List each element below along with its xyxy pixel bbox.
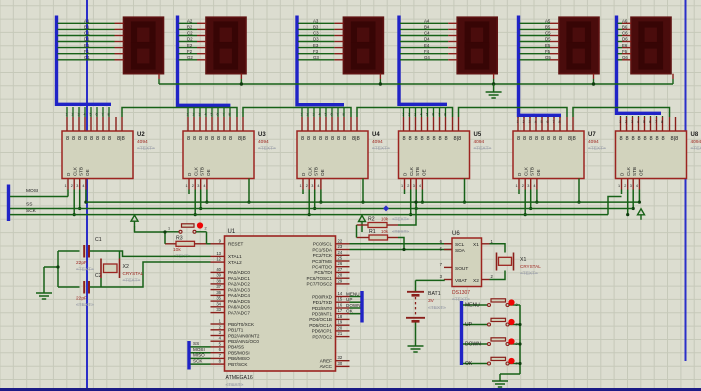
wire U4 vcc pin to rail: [362, 179, 364, 203]
svg-text:STB: STB: [530, 167, 535, 176]
pin U5 bottom pin: [404, 179, 406, 190]
svg-text:D4: D4: [424, 37, 430, 42]
svg-text:22pF: 22pF: [76, 260, 87, 266]
svg-text:6: 6: [432, 113, 434, 117]
svg-text:8: 8: [223, 136, 226, 142]
svg-text:5: 5: [325, 113, 327, 117]
svg-text:G6: G6: [622, 55, 628, 60]
svg-text:4: 4: [419, 184, 421, 188]
svg-text:6: 6: [331, 113, 333, 117]
junction: [247, 201, 250, 204]
svg-text:8: 8: [559, 136, 562, 142]
svg-text:4: 4: [420, 113, 422, 117]
svg-text:8: 8: [90, 136, 93, 142]
wire U4 stb pin to SS rail: [314, 190, 316, 209]
wire U2 clk pin to SCK rail: [73, 190, 75, 215]
svg-text:U4: U4: [372, 132, 380, 138]
pin wire U7 top pin 1: [517, 117, 519, 118]
junction: [518, 323, 521, 326]
svg-text:E6: E6: [622, 43, 628, 48]
wire segment E5 from bus to display: [520, 47, 551, 49]
svg-text:2: 2: [307, 113, 309, 117]
svg-text:8: 8: [211, 136, 214, 142]
pin wire U2 top pin 3: [78, 107, 80, 117]
pin 32 AREF of U1: [336, 360, 350, 362]
wire U5 data pin stub: [404, 190, 406, 195]
pin wire U2 top pin 2: [72, 107, 74, 117]
svg-text:8: 8: [403, 136, 406, 142]
svg-text:1: 1: [401, 184, 403, 188]
svg-text:X2: X2: [473, 278, 479, 284]
pin U4 bottom pin: [302, 179, 304, 190]
svg-text:7: 7: [337, 113, 339, 117]
junction: [524, 213, 527, 216]
svg-text:8: 8: [217, 136, 220, 142]
svg-text:<TEXT>: <TEXT>: [137, 146, 155, 152]
wire U5 oe pin to OE rail: [421, 190, 423, 203]
svg-text:E4: E4: [424, 43, 430, 48]
pin wire U8 top pin 6: [650, 116, 652, 117]
battery BAT1 3V: [406, 280, 425, 342]
svg-text:U8: U8: [691, 132, 699, 138]
pin U2 bottom pin: [85, 179, 87, 190]
pin wire U2 top pin 8: [108, 107, 110, 117]
pin U4 bottom pin: [320, 179, 322, 190]
svg-text:6: 6: [217, 113, 219, 117]
pin 30 AVCC of U1: [336, 365, 350, 367]
junction: [205, 201, 208, 204]
svg-text:3: 3: [311, 184, 313, 188]
svg-text:1: 1: [65, 184, 67, 188]
svg-text:A5: A5: [545, 19, 551, 24]
wire U8 oe pin to OE rail: [638, 190, 640, 203]
svg-text:34: 34: [216, 301, 221, 306]
wire U8 data pin stub: [621, 190, 623, 195]
wire U7 data pin stub: [518, 190, 520, 195]
svg-text:8: 8: [187, 136, 190, 142]
svg-text:PB7/SCK: PB7/SCK: [228, 362, 248, 367]
svg-text:3: 3: [76, 184, 78, 188]
svg-text:<TEXT>: <TEXT>: [372, 146, 390, 152]
svg-text:4: 4: [84, 113, 86, 117]
svg-text:7: 7: [223, 113, 225, 117]
pin 18 PD4/OC1B of U1: [336, 318, 350, 320]
crystal X2: [101, 259, 120, 279]
pin 3 PB2/AIN0/INT2 of U1: [211, 335, 225, 337]
wire R2 to rail: [398, 202, 416, 225]
wire segment B3 from bus to display: [298, 28, 334, 30]
capacitor C1 22pF: [84, 245, 89, 258]
wire C1 to XTAL1: [90, 251, 211, 256]
pin wire U5 top pin 7: [439, 107, 441, 117]
svg-text:MOSI: MOSI: [26, 188, 38, 194]
svg-text:A6: A6: [622, 19, 628, 24]
junction: [240, 82, 243, 85]
wire UP to PD pin: [350, 301, 361, 303]
junction: [73, 213, 76, 216]
wire U4 clk pin to SCK rail: [308, 190, 310, 215]
svg-text:<TEXT>: <TEXT>: [226, 382, 244, 388]
junction: [414, 201, 417, 204]
svg-text:2: 2: [516, 362, 518, 366]
pin U7 cascade pin: [566, 117, 568, 131]
svg-text:8: 8: [72, 136, 75, 142]
junction: [421, 201, 424, 204]
pin wire U3 top pin 4: [205, 108, 207, 117]
svg-text:PA7/ADC7: PA7/ADC7: [228, 310, 250, 315]
svg-text:CLK: CLK: [73, 166, 78, 176]
wire crystal to XTAL1 net: [119, 251, 121, 259]
wire button to R3 right: [206, 232, 208, 244]
svg-text:F2: F2: [187, 49, 193, 54]
svg-text:D6: D6: [622, 37, 628, 42]
wire SS rail: [10, 208, 633, 210]
display 6 common pin wire: [672, 74, 674, 79]
svg-text:1: 1: [300, 184, 302, 188]
pin 20 PD6/ICP1 of U1: [336, 330, 350, 332]
pin 34 PA6/ADC6 of U1: [211, 306, 225, 308]
7-segment display DISP5: [559, 17, 599, 73]
svg-text:2: 2: [523, 120, 525, 124]
wire segment F6 from bus to display: [618, 53, 623, 55]
svg-text:CLK: CLK: [626, 166, 631, 176]
svg-text:1: 1: [187, 113, 189, 117]
pin U8 bottom pin: [627, 179, 629, 190]
svg-text:D3: D3: [313, 37, 319, 42]
vertical bus line right: [685, 0, 687, 361]
7-segment display DISP1: [124, 17, 164, 73]
IC U6 DS1307 RTC: [452, 238, 482, 287]
svg-text:7: 7: [102, 113, 104, 117]
wire button to R3 left: [164, 232, 166, 244]
svg-text:PC2/TCK: PC2/TCK: [313, 253, 333, 258]
button actuator dot: [197, 222, 203, 228]
svg-text:SDA: SDA: [455, 248, 466, 254]
svg-text:F1: F1: [84, 49, 90, 54]
svg-text:3: 3: [313, 113, 315, 117]
svg-text:4: 4: [533, 184, 535, 188]
svg-text:<TEXT>: <TEXT>: [520, 271, 538, 277]
svg-text:26: 26: [338, 261, 343, 266]
svg-text:4: 4: [82, 184, 84, 188]
pin 19 PD5/OC1A of U1: [336, 324, 350, 326]
svg-text:SS: SS: [26, 202, 32, 208]
svg-text:8: 8: [108, 136, 111, 142]
svg-text:2: 2: [522, 184, 524, 188]
svg-text:8: 8: [108, 113, 110, 117]
pin U2 cascade pin: [115, 117, 117, 131]
svg-text:8: 8: [553, 136, 556, 142]
pin wire U3 top pin 5: [211, 108, 213, 117]
wire U5 stb pin to SS rail: [415, 190, 417, 209]
svg-text:8: 8: [415, 136, 418, 142]
svg-text:AVCC: AVCC: [320, 364, 333, 369]
wire segment A1 from bus to display: [58, 22, 115, 24]
wire U8 clk pin to SCK rail: [627, 190, 629, 215]
svg-text:SOUT: SOUT: [455, 266, 468, 272]
junction: [402, 248, 405, 251]
svg-text:PD4/OC1B: PD4/OC1B: [309, 317, 332, 322]
resistor R2 10k: [357, 223, 399, 228]
junction: [638, 201, 641, 204]
svg-text:RESET: RESET: [228, 242, 244, 247]
svg-text:G5: G5: [545, 55, 551, 60]
wire segment B5 from bus to display: [520, 28, 551, 30]
wire segment G1 from bus to display: [58, 59, 115, 61]
pin 2 PB1/T1 of U1: [211, 329, 225, 331]
pin wire U7 top pin 4: [535, 117, 537, 118]
pin wire U7 top pin 2: [523, 117, 525, 118]
svg-text:<TEXT>: <TEXT>: [76, 267, 94, 273]
svg-text:A2: A2: [187, 19, 193, 24]
resistor R3 10k: [165, 241, 207, 246]
svg-text:OE: OE: [422, 169, 427, 176]
svg-text:2: 2: [625, 120, 627, 124]
button MENU actuator dot: [508, 299, 514, 305]
pin U2 bottom pin: [73, 179, 75, 190]
pin wire U8 top pin 1: [620, 116, 622, 117]
svg-text:CLK: CLK: [308, 166, 313, 176]
pin wire U7 top pin 8: [559, 117, 561, 118]
svg-text:OK: OK: [346, 309, 354, 314]
svg-text:1: 1: [186, 184, 188, 188]
svg-text:8: 8: [559, 120, 561, 124]
power +5V near U1: [359, 216, 366, 227]
wire to ground: [493, 84, 495, 88]
svg-text:SCK: SCK: [193, 358, 203, 363]
svg-text:8: 8: [439, 136, 442, 142]
display 1 common pin wire: [158, 74, 160, 79]
svg-text:8: 8: [229, 113, 231, 117]
svg-text:PC4/TDO: PC4/TDO: [312, 265, 332, 270]
svg-text:U2: U2: [137, 132, 145, 138]
svg-text:CRYSTAL: CRYSTAL: [520, 264, 541, 269]
svg-text:12: 12: [216, 257, 221, 262]
svg-text:OE: OE: [639, 169, 644, 176]
7-segment display DISP6: [631, 17, 671, 73]
pin U2 bottom pin: [67, 179, 69, 190]
pin wire U3 top pin 1: [187, 108, 189, 117]
pin U7 bottom pin: [530, 179, 532, 190]
wire U7 vcc pin to rail: [578, 179, 580, 203]
svg-text:28: 28: [338, 273, 343, 278]
wire battery to VBAT: [416, 279, 445, 282]
svg-text:E1: E1: [84, 43, 90, 48]
pin 12 XTAL2 of U1: [211, 261, 225, 263]
pin 6 PB5/MOSI of U1: [211, 352, 225, 354]
svg-text:E5: E5: [545, 43, 551, 48]
pin wire U4 top pin 8: [343, 107, 345, 117]
pin wire U8 top pin 4: [638, 116, 640, 117]
wire XTAL2 net: [58, 286, 80, 288]
svg-text:B1: B1: [84, 25, 90, 30]
svg-text:8: 8: [662, 136, 665, 142]
svg-text:8: 8: [331, 136, 334, 142]
bus stub buttons: [460, 301, 463, 365]
svg-text:8|8: 8|8: [454, 136, 462, 142]
svg-text:F6: F6: [622, 49, 628, 54]
wire segment D4 from bus to display: [400, 41, 448, 43]
svg-text:10k: 10k: [173, 247, 181, 253]
svg-text:4: 4: [636, 184, 638, 188]
pin U5 cascade pin: [458, 117, 460, 131]
wire down to ground: [43, 267, 45, 289]
junction: [379, 82, 382, 85]
svg-text:OE: OE: [536, 169, 541, 176]
pin wire U7 top pin 5: [541, 117, 543, 118]
pin wire U4 top pin 6: [331, 107, 333, 117]
bus stub buttons at U1: [360, 291, 363, 323]
svg-text:MENU: MENU: [346, 291, 360, 296]
pin 15 PD1/TXD of U1: [336, 301, 350, 303]
pin wire U8 top pin 5: [644, 116, 646, 117]
junction: [626, 213, 629, 216]
svg-text:PD3/INT1: PD3/INT1: [312, 312, 333, 317]
junction: [632, 207, 635, 210]
svg-text:PB3/AIN1/OC0: PB3/AIN1/OC0: [228, 339, 259, 344]
svg-text:PA5/ADC5: PA5/ADC5: [228, 299, 250, 304]
wire segment D3 from bus to display: [298, 41, 334, 43]
svg-text:MOSI: MOSI: [193, 347, 205, 352]
junction: [78, 207, 81, 210]
wire power stub: [361, 226, 363, 232]
svg-text:40: 40: [216, 267, 221, 272]
junction: [313, 207, 316, 210]
svg-text:21: 21: [338, 331, 343, 336]
svg-text:F3: F3: [313, 49, 319, 54]
svg-text:R3: R3: [176, 236, 183, 242]
wire MOSI rail: [10, 196, 68, 198]
pin U7 bottom pin: [524, 179, 526, 190]
svg-text:6: 6: [547, 120, 549, 124]
resistor R1 10k: [357, 235, 399, 240]
wire U7 stb pin to SS rail: [530, 190, 532, 209]
svg-text:13: 13: [216, 251, 221, 256]
junction: [518, 342, 521, 345]
wire segment G6 from bus to display: [618, 59, 623, 61]
svg-text:D2: D2: [187, 37, 193, 42]
svg-text:C5: C5: [545, 31, 551, 36]
pin U8 bottom pin: [621, 179, 623, 190]
svg-text:A4: A4: [424, 19, 430, 24]
pin U5 bottom pin: [415, 179, 417, 190]
wire power to reset pullup: [135, 226, 166, 232]
svg-text:24: 24: [338, 250, 343, 255]
svg-text:8: 8: [632, 136, 635, 142]
svg-text:8: 8: [535, 136, 538, 142]
wire segment F3 from bus to display: [298, 53, 334, 55]
pin 21 PD7/OC2 of U1: [336, 336, 350, 338]
junction: [163, 230, 166, 233]
svg-text:17: 17: [338, 308, 343, 313]
pin 26 PC4/TDO of U1: [336, 266, 350, 268]
wire U5 vcc pin to rail: [464, 179, 466, 203]
bus for display 6: [617, 16, 662, 114]
junction: [56, 265, 59, 268]
7-segment display DISP3: [343, 17, 383, 73]
wire segment C2 from bus to display: [179, 35, 198, 37]
svg-text:2: 2: [407, 184, 409, 188]
pin U8 bottom pin: [632, 179, 634, 190]
junction: [577, 201, 580, 204]
wire segment G2 from bus to display: [179, 59, 198, 61]
svg-text:8: 8: [445, 136, 448, 142]
pin U7 bottom pin: [536, 179, 538, 190]
pin U4 bottom pin: [314, 179, 316, 190]
svg-text:15: 15: [338, 297, 343, 302]
svg-text:7: 7: [438, 113, 440, 117]
pin 25 PC3/TMS of U1: [336, 260, 350, 262]
wire U3 stb pin to SS rail: [200, 190, 202, 209]
wire buttons to ground: [519, 305, 521, 374]
wire cascade U3 to U4: [243, 108, 351, 118]
wire crystal to XTAL2 net: [100, 278, 102, 287]
svg-text:8: 8: [433, 136, 436, 142]
svg-text:7: 7: [553, 120, 555, 124]
svg-text:8: 8: [102, 136, 105, 142]
pin 40 PA0/ADC0 of U1: [211, 271, 225, 273]
bus stub SPI at U1: [187, 341, 190, 370]
push button OK: [463, 357, 520, 365]
wire segment G3 from bus to display: [298, 59, 334, 61]
microcontroller U1 ATMEGA16: [225, 236, 336, 371]
svg-text:C3: C3: [313, 31, 319, 36]
display 3 common pin wire: [379, 74, 381, 79]
pin U7 cascade pin: [572, 117, 574, 131]
svg-text:16: 16: [338, 303, 343, 308]
svg-text:D5: D5: [545, 37, 551, 42]
svg-text:8: 8: [638, 136, 641, 142]
IC U4 (4094 shift register): [297, 131, 368, 179]
svg-text:<TEXT>: <TEXT>: [428, 305, 446, 311]
wire U2 oe pin to OE rail: [85, 190, 87, 203]
svg-text:XTAL1: XTAL1: [228, 254, 242, 259]
pin wire U2 top pin 1: [66, 107, 68, 117]
svg-text:8: 8: [343, 113, 345, 117]
svg-text:2: 2: [516, 303, 518, 307]
wire SDA: [350, 249, 453, 251]
junction: [84, 201, 87, 204]
wire segment E6 from bus to display: [618, 47, 623, 49]
pin U7 bottom pin: [518, 179, 520, 190]
svg-text:C2: C2: [187, 31, 193, 36]
pin wire U4 top pin 1: [301, 107, 303, 117]
pin wire U7 top pin 6: [547, 117, 549, 118]
svg-text:38: 38: [216, 278, 221, 283]
pin 36 PA4/ADC4 of U1: [211, 294, 225, 296]
svg-text:8: 8: [529, 136, 532, 142]
svg-text:3: 3: [527, 184, 529, 188]
svg-text:X1: X1: [473, 242, 479, 248]
svg-text:PA3/ADC3: PA3/ADC3: [228, 287, 250, 292]
svg-text:4094: 4094: [372, 139, 383, 145]
svg-text:3: 3: [529, 120, 531, 124]
pin U3 bottom pin: [200, 179, 202, 190]
svg-text:DS1307: DS1307: [452, 290, 470, 296]
7-segment display DISP2: [206, 17, 246, 73]
svg-text:4094: 4094: [691, 139, 701, 145]
svg-text:DOWN: DOWN: [465, 342, 481, 348]
wire segment F1 from bus to display: [58, 53, 115, 55]
7-segment display DISP4: [457, 17, 497, 73]
svg-text:PD2/INT0: PD2/INT0: [312, 306, 333, 311]
svg-text:PC6/TOSC1: PC6/TOSC1: [307, 276, 333, 281]
bus for display 2: [178, 16, 231, 106]
wire SCL: [350, 243, 453, 245]
junction: [535, 201, 538, 204]
svg-text:<TEXT>: <TEXT>: [474, 146, 492, 152]
svg-text:CLK: CLK: [524, 166, 529, 176]
